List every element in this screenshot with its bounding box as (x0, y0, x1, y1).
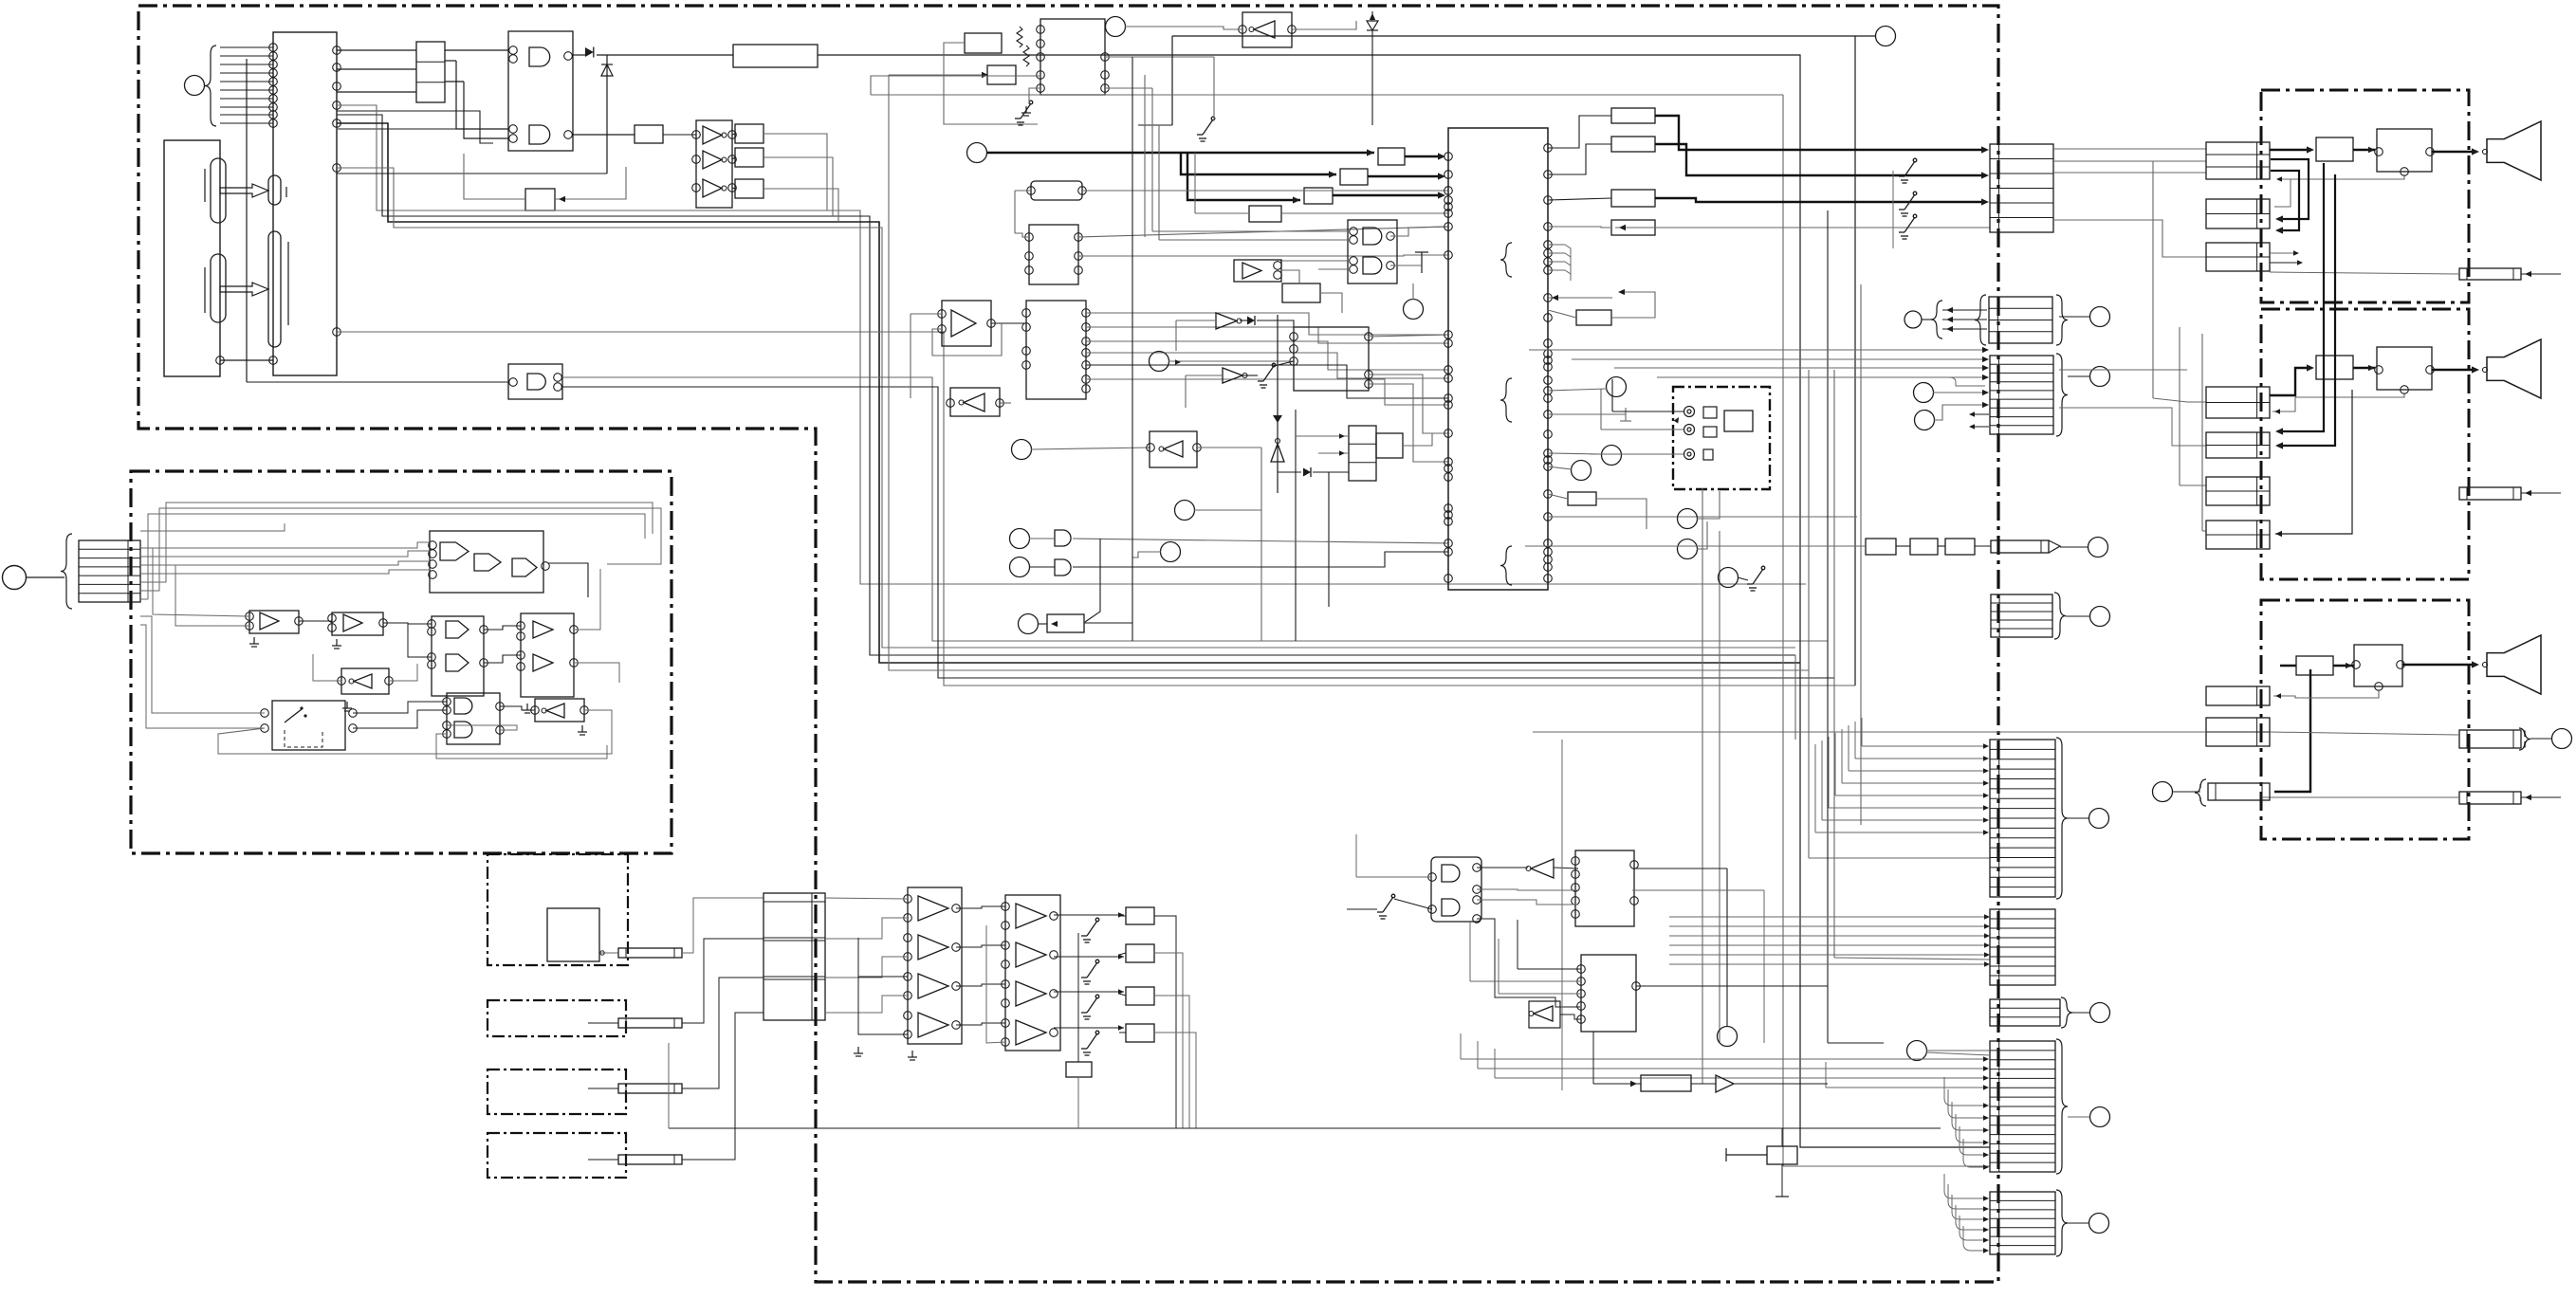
pin (1577, 990, 1586, 998)
wire (1781, 1128, 1783, 1146)
wire (1154, 916, 1176, 1128)
pin (2397, 661, 2405, 669)
wire gnd rail (858, 938, 908, 1034)
wire (1636, 985, 1828, 987)
wire (1734, 1083, 1828, 1085)
pin (261, 709, 269, 718)
pin (2375, 148, 2383, 156)
pin right U301 (1544, 258, 1553, 266)
wire (1926, 1050, 1990, 1051)
reg U603a (1126, 907, 1154, 924)
wire (389, 664, 417, 681)
wire (1834, 958, 1990, 960)
reg U603c (1126, 987, 1154, 1005)
wire thick clv (987, 152, 1374, 154)
register stack U222 (1349, 426, 1376, 481)
wire return (1615, 227, 1990, 229)
reg U207 (1249, 206, 1281, 222)
pin (349, 709, 358, 718)
pin (996, 399, 1004, 408)
arrowhead (1983, 1164, 1989, 1169)
frame key-input block border (131, 471, 672, 853)
arrowhead (2368, 147, 2375, 153)
pin (385, 677, 394, 686)
wire (562, 387, 1834, 678)
wire (682, 939, 764, 1023)
wire (1082, 190, 1448, 192)
ground (908, 1051, 917, 1060)
wire (2333, 665, 2354, 667)
reg U302a (1611, 108, 1655, 123)
arrowhead (1983, 1085, 1989, 1089)
inverter box U213 (1242, 12, 1292, 47)
plug CN504 (618, 1084, 682, 1093)
wire (1394, 899, 1432, 909)
pin (1002, 960, 1010, 969)
pin (904, 992, 912, 1000)
connector circle J305 (1678, 539, 1698, 559)
pin (1002, 980, 1010, 989)
wire (383, 623, 432, 624)
pin (509, 55, 518, 64)
relay K402 (2377, 347, 2432, 390)
arrowhead (2275, 428, 2283, 434)
frame main unit border (138, 6, 1998, 1282)
connector CN405 (2206, 387, 2270, 418)
arrowhead (1969, 424, 1975, 429)
wire fan (1669, 944, 1986, 946)
pin (564, 131, 573, 139)
switch S604 (1081, 1031, 1099, 1055)
wire (140, 598, 148, 600)
frame speaker L border (2261, 90, 2469, 302)
reg U612 (1767, 1146, 1797, 1164)
wire (153, 548, 249, 616)
wire (1077, 1077, 1079, 1128)
wire (1371, 11, 1373, 21)
buffer U601c (918, 974, 948, 998)
wire (1086, 379, 1448, 405)
connector circle J209 (1010, 558, 1030, 577)
wire (1593, 1083, 1641, 1085)
wire (1242, 375, 1258, 376)
junction (600, 951, 604, 955)
arrowhead (2297, 260, 2303, 265)
arrowhead (1983, 817, 1989, 822)
pin right U301 (1544, 456, 1553, 465)
pin (1075, 233, 1083, 242)
connector circle J308 (2090, 367, 2110, 387)
pin (429, 550, 437, 558)
pin (1101, 53, 1110, 62)
pin (509, 125, 518, 134)
wire (1119, 1032, 1126, 1033)
wire (1274, 361, 1294, 366)
inverter IC U601 (908, 887, 962, 1044)
wire (464, 82, 508, 138)
op-amp triangle U210 (951, 310, 976, 337)
reg U204 (1378, 148, 1405, 165)
wire (1367, 29, 1378, 31)
AND U214a (1363, 228, 1382, 245)
wire (2180, 484, 2206, 486)
wire trunk V1795 (1702, 488, 1703, 1084)
wire (1281, 212, 1448, 214)
pin (269, 69, 278, 78)
wire (338, 128, 493, 130)
wire (1799, 55, 1801, 1147)
wire (500, 706, 535, 710)
connector circle J303 (1572, 461, 1592, 481)
wire (732, 157, 735, 159)
switch dots (300, 706, 306, 717)
pin (1630, 861, 1639, 869)
wire (732, 188, 735, 189)
wire fan (1614, 367, 1985, 369)
wire (2072, 1012, 2089, 1014)
pin (443, 722, 451, 730)
pin left U301 (1444, 153, 1453, 161)
buffer IC U107 (696, 120, 732, 208)
wire (732, 134, 735, 135)
arrowhead (1051, 621, 1058, 627)
sensor S1 (547, 908, 599, 961)
pin left U301 (1444, 511, 1453, 520)
pin (428, 620, 436, 629)
wire (1368, 175, 1442, 177)
ground (1021, 106, 1031, 116)
wire (1085, 539, 1100, 622)
wire (588, 1088, 618, 1089)
wire vert 1137 (1077, 933, 1079, 1062)
wire (175, 565, 249, 626)
pin (1037, 71, 1045, 80)
arrowhead (2275, 227, 2283, 233)
wire (408, 624, 432, 657)
inverter U212a (964, 393, 984, 411)
wire (1158, 125, 1160, 240)
arrowhead (1982, 347, 1989, 353)
wire (1460, 1033, 1462, 1059)
wire key line (220, 122, 273, 124)
pin (333, 46, 341, 55)
wire (1015, 190, 1031, 192)
plug CN505 (618, 1155, 682, 1164)
wire (1477, 867, 1528, 868)
wire (2060, 546, 2088, 548)
switch S602 (1081, 960, 1099, 984)
wire thick (2277, 163, 2324, 431)
wire (1369, 335, 1448, 337)
wire (1000, 402, 1011, 404)
AND U507b (454, 722, 472, 738)
wire (1548, 310, 1576, 318)
ground (578, 725, 587, 735)
wire (1356, 876, 1432, 878)
wire (956, 984, 1005, 986)
connector CN307 (1990, 999, 2060, 1026)
wire (2055, 731, 2206, 733)
pin left U301 (1444, 394, 1453, 403)
wire (484, 655, 521, 663)
AND U507a (454, 698, 472, 714)
connector CN302 (1989, 297, 2052, 343)
wire feedback (932, 323, 1002, 356)
brace CN308 (2056, 1039, 2068, 1174)
pin (728, 155, 737, 164)
arrowhead (1118, 1025, 1124, 1030)
arrowhead (1982, 375, 1989, 380)
pin speaker (2483, 150, 2488, 155)
wire (1194, 509, 1261, 511)
pin (496, 726, 505, 735)
wire (2053, 172, 2206, 174)
pin left U301 (1444, 251, 1453, 260)
pin (904, 1031, 912, 1039)
arrowhead (1982, 402, 1989, 408)
connector circle J402 (2153, 782, 2173, 802)
wire (1015, 233, 1029, 237)
pin (1577, 965, 1586, 974)
arrowhead (2276, 176, 2282, 181)
inverter box U220 (1150, 431, 1197, 467)
pin left U301 (1444, 539, 1453, 548)
zener D102 (601, 64, 613, 76)
wire (597, 54, 733, 56)
switch blade S501 (285, 709, 302, 722)
wire fan (1861, 718, 1863, 746)
wire (1842, 782, 1985, 784)
wire (2202, 530, 2206, 532)
arrowhead (1983, 1196, 1989, 1200)
wire (1054, 991, 1124, 993)
wire (140, 523, 285, 531)
wire (1794, 655, 1796, 740)
motor sq2 (1703, 427, 1717, 437)
wire (825, 898, 908, 899)
pin right U301 (1544, 387, 1553, 395)
wire (1105, 56, 1214, 58)
wire (27, 576, 64, 578)
pin (509, 135, 518, 143)
buffer box U215 (1234, 260, 1281, 282)
pin (269, 111, 278, 119)
reg U304 (1568, 492, 1596, 505)
connector circle J318 (1719, 568, 1739, 588)
wire (1548, 494, 1568, 499)
wire thick (2271, 171, 2299, 230)
frame sensor box C border (488, 1069, 626, 1114)
wire (871, 76, 1040, 95)
wire (1494, 1049, 1496, 1078)
pin (269, 103, 278, 112)
gate IC U214 (1348, 220, 1397, 283)
wire (1152, 230, 1348, 232)
pin (269, 61, 278, 69)
plug CN310 (1991, 540, 2049, 553)
wire (1828, 1042, 1884, 1044)
wire fan (1814, 744, 1816, 832)
wire (2059, 316, 2089, 318)
pin speaker (2483, 368, 2488, 373)
wire stub (1548, 270, 1571, 281)
gate IC U104 (508, 31, 573, 151)
wire (1371, 30, 1373, 125)
frame speaker C border (2261, 600, 2469, 839)
connector circle J101 (185, 76, 205, 96)
capsule crystal X1 (211, 158, 226, 223)
arrowhead (1983, 805, 1989, 810)
reg U205 (1340, 169, 1368, 185)
wire bus line 2 (337, 115, 1795, 655)
wire (1186, 375, 1223, 376)
wire (1611, 292, 1655, 318)
pin (333, 101, 341, 110)
bubble (1159, 447, 1164, 451)
pin (1577, 978, 1586, 986)
pin right U301 (1544, 266, 1553, 275)
inverter U213a (1254, 21, 1275, 38)
pin (333, 119, 341, 128)
wire (1942, 328, 1987, 330)
wire (1105, 54, 1172, 56)
wire (548, 563, 588, 597)
pin (1350, 236, 1358, 245)
wire (2068, 1116, 2089, 1118)
pin (1350, 257, 1358, 265)
pin (692, 184, 701, 192)
buffer U602b (1016, 942, 1046, 967)
arrowhead (2472, 366, 2479, 373)
arrowhead (1984, 961, 1990, 966)
pin (904, 914, 912, 923)
reg U223 (1376, 433, 1403, 458)
diode D203 (1247, 317, 1255, 325)
pin (1002, 942, 1010, 950)
pin (328, 624, 337, 632)
pin (1632, 982, 1641, 991)
pin (1365, 333, 1373, 341)
wire (484, 626, 521, 630)
wire (445, 60, 456, 62)
wire (825, 957, 908, 978)
buffer U107b (703, 151, 722, 169)
arrowhead (1946, 317, 1953, 322)
reg U108a (735, 124, 764, 143)
wire (911, 313, 942, 315)
wire (1612, 411, 1684, 412)
wire (204, 169, 206, 202)
pin right U301 (1544, 241, 1553, 249)
arrowhead (1438, 153, 1445, 159)
wire (1029, 88, 1040, 104)
pin right U301 (1544, 223, 1553, 231)
arrowhead (1118, 912, 1124, 917)
pin (570, 659, 579, 667)
wire fan (1854, 722, 1856, 759)
resistor R202 (1023, 46, 1029, 66)
wire (2059, 369, 2187, 371)
reg U305a (1866, 539, 1896, 555)
wire (1548, 297, 1612, 299)
wire (1086, 327, 1448, 343)
wire (858, 976, 908, 978)
wire thick (2270, 149, 2310, 151)
pin (2352, 661, 2361, 669)
connector circle J206 (1150, 352, 1169, 372)
plug CN404 (2459, 268, 2521, 280)
wire (312, 1070, 314, 1072)
reg U604 (1066, 1062, 1092, 1077)
pin (1577, 1002, 1586, 1011)
wire (2068, 375, 2089, 377)
wire (1809, 857, 1990, 859)
wire vert 1366 (1295, 410, 1297, 641)
IC U607 (1575, 850, 1634, 926)
pin (246, 622, 254, 631)
wire stub (1548, 262, 1571, 281)
wire (1499, 993, 1581, 995)
arrowhead (1982, 390, 1989, 395)
wire (140, 625, 265, 728)
pin right U301 (1544, 411, 1553, 419)
connector CN309 (1990, 1192, 2055, 1254)
wire fan corner (1960, 1216, 1985, 1240)
OR U501c (512, 558, 537, 576)
pin (246, 612, 254, 621)
wire trunk V1956a (1854, 36, 1856, 686)
connector circle J401 (2552, 729, 2572, 749)
wire (682, 978, 764, 1088)
OR U504b (446, 654, 469, 671)
pin (1577, 1015, 1586, 1024)
wire return (2272, 393, 2404, 411)
buffer IC U505 (521, 613, 574, 697)
wire (1176, 320, 1216, 321)
brace CN302 R (2056, 295, 2068, 345)
pin (333, 328, 341, 337)
wire (1822, 819, 1985, 821)
wire thick (2432, 369, 2475, 371)
wire key line (220, 89, 273, 91)
relay K403 (2354, 645, 2402, 686)
wire (1151, 88, 1153, 231)
motor M1 (1724, 411, 1753, 431)
pin left U301 (1444, 458, 1453, 466)
wire (1171, 36, 1173, 125)
reg U603d (1126, 1024, 1154, 1042)
amp U403 (2296, 656, 2333, 675)
pin (328, 614, 337, 623)
connector circle J311 (2090, 1003, 2110, 1023)
wire (1412, 283, 1414, 300)
switch box S501 (272, 701, 345, 750)
brace J307 (1931, 301, 1942, 338)
connector circle J309 (2090, 607, 2110, 627)
wire loop (140, 503, 653, 582)
switch S304 (1899, 214, 1917, 239)
gate IC U507 (447, 693, 500, 744)
pin (2375, 683, 2383, 691)
wire fan (1841, 729, 1843, 783)
ground (342, 702, 352, 711)
wire (1168, 360, 1294, 362)
wire key line (220, 106, 273, 108)
connector CN411 (2206, 718, 2270, 746)
inverter box U508 (535, 699, 584, 722)
reg U302d (1611, 220, 1655, 235)
amp U402 (2316, 356, 2353, 379)
